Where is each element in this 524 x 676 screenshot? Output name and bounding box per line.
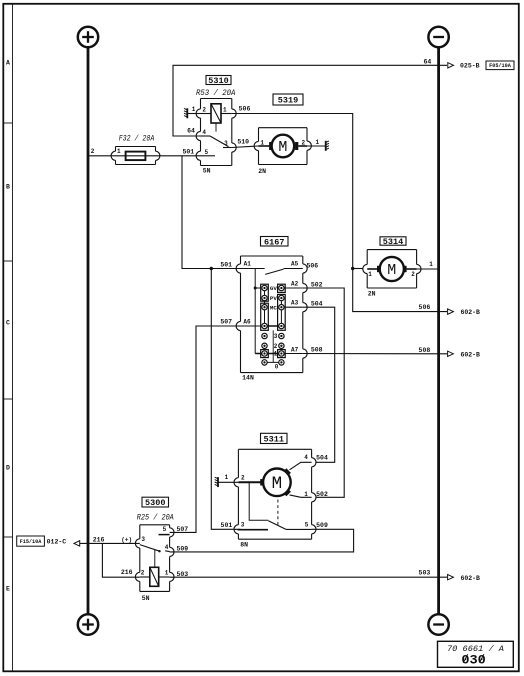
label 8N: [240, 542, 248, 549]
contact R-PV: [279, 295, 284, 300]
svg-text:D: D: [6, 464, 10, 471]
motor 5314: [367, 257, 416, 281]
svg-text:MC: MC: [270, 304, 277, 311]
wire 506 junction to 5314: [353, 268, 363, 270]
svg-text:510: 510: [237, 139, 249, 146]
label 2N under 5314: [368, 291, 376, 298]
contact box right PV-R4: [278, 294, 286, 330]
svg-text:504: 504: [316, 455, 328, 462]
wire to pin 1: [290, 495, 312, 497]
svg-text:F05/10A: F05/10A: [489, 63, 512, 69]
label pos1: [274, 351, 278, 358]
label PV: [270, 295, 277, 302]
svg-text:5: 5: [305, 522, 309, 529]
A6 stub: [241, 325, 261, 327]
wire 503: [170, 576, 447, 578]
battery - symbol bottom: [428, 614, 448, 634]
junction 501 at A1 row: [210, 267, 213, 270]
svg-text:602-B: 602-B: [460, 309, 480, 316]
svg-text:2: 2: [411, 271, 415, 278]
contact box right row1: [278, 350, 286, 358]
label 502 at A2: [311, 281, 323, 288]
svg-text:1: 1: [429, 261, 433, 268]
label 504 at A3: [311, 301, 323, 308]
right column link: [280, 298, 282, 326]
pin label A1: [244, 261, 252, 268]
margin letter D: [6, 464, 10, 471]
row R4 link: [265, 325, 282, 327]
svg-text:3: 3: [241, 522, 245, 529]
pin label 2 (5319): [301, 139, 305, 146]
svg-text:5310: 5310: [208, 76, 228, 86]
pin label 2 (5300): [141, 569, 145, 576]
svg-text:2: 2: [141, 569, 145, 576]
label pos0: [275, 363, 279, 370]
svg-text:3: 3: [274, 333, 278, 340]
wire 510: [232, 139, 259, 148]
svg-text:1: 1: [315, 139, 319, 146]
contact R-3: [279, 333, 284, 338]
label 2N under 5319: [258, 168, 266, 175]
svg-text:5311: 5311: [264, 434, 284, 444]
junction inside 6167: [254, 287, 257, 290]
wire 501 down to 5311 pin3: [211, 269, 240, 530]
svg-text:5: 5: [204, 149, 208, 156]
svg-text:506: 506: [306, 263, 318, 270]
svg-text:A6: A6: [243, 318, 251, 325]
svg-text:M: M: [278, 139, 287, 156]
label 64 near relay: [187, 127, 195, 134]
title block: [438, 641, 514, 667]
+ supply bus: [87, 47, 90, 615]
svg-text:5N: 5N: [203, 168, 211, 175]
exit arrow 602-B (508): [448, 351, 480, 358]
label 504 at 5311: [316, 455, 328, 462]
label MC: [270, 304, 277, 311]
contact L-PV: [262, 295, 267, 300]
svg-text:F32 / 20A: F32 / 20A: [119, 136, 155, 144]
pin 3 stub (5310): [223, 140, 232, 147]
svg-text:3: 3: [141, 536, 145, 543]
svg-text:012-C: 012-C: [47, 538, 67, 545]
margin tick 2: [3, 260, 12, 262]
margin tick 3: [3, 398, 12, 400]
svg-text:3: 3: [224, 140, 228, 147]
5300 pin4 stub: [165, 544, 170, 552]
margin letter A: [6, 59, 10, 66]
A5 stub: [284, 268, 303, 270]
contact R-2: [279, 343, 284, 348]
label 5N under 5310: [203, 168, 211, 175]
selector line: [272, 330, 274, 362]
wire 509: [170, 529, 354, 552]
wire 508: [303, 353, 447, 355]
fuse F32: [111, 147, 160, 165]
destination box F05/10A: [486, 61, 514, 70]
label 507 near 5300: [176, 526, 188, 533]
label 506 near relay: [239, 105, 251, 112]
svg-text:1: 1: [165, 569, 169, 576]
label GV: [270, 285, 277, 292]
svg-text:1: 1: [117, 148, 121, 155]
wire 64: [173, 65, 447, 136]
5300 blade link: [154, 550, 156, 568]
label 507 near A6: [220, 319, 232, 326]
svg-text:502: 502: [311, 281, 323, 288]
svg-text:502: 502: [316, 491, 328, 498]
label 509 at 5311: [316, 522, 328, 529]
svg-text:216: 216: [93, 536, 105, 543]
svg-text:504: 504: [311, 301, 323, 308]
svg-text:1: 1: [223, 107, 227, 114]
svg-text:0: 0: [275, 363, 279, 370]
ground at 5319: [326, 141, 329, 151]
motor 5319: [259, 135, 308, 158]
row1 to A7 wire: [285, 353, 303, 355]
svg-text:5300: 5300: [145, 498, 165, 508]
wire 216 branch to pin2: [102, 543, 139, 577]
ground at 5311: [215, 474, 239, 487]
wire 501 vertical to A1: [182, 156, 241, 269]
margin tick 1: [3, 122, 12, 124]
svg-text:503: 503: [419, 570, 431, 577]
6167 internal feed line: [254, 269, 256, 354]
wire 216 to pin3: [80, 542, 140, 544]
svg-text:64: 64: [423, 58, 431, 65]
contact R-1: [279, 351, 284, 356]
margin letter E: [6, 585, 10, 592]
5311 park blade: [268, 521, 286, 530]
contact L-3: [262, 333, 267, 338]
5311 blade to pin5: [286, 528, 312, 530]
svg-text:2: 2: [91, 148, 95, 155]
coil link 5310: [215, 123, 217, 132]
MC to A3 wire: [285, 306, 303, 308]
margin column line: [12, 4, 14, 672]
svg-text:4: 4: [202, 129, 206, 136]
contact R-GV: [279, 285, 284, 290]
motor 5319 body: [254, 128, 311, 165]
svg-text:503: 503: [176, 571, 188, 578]
exit arrow 602-B (506): [448, 309, 480, 316]
svg-text:2N: 2N: [368, 291, 376, 298]
svg-text:2: 2: [301, 139, 305, 146]
contact box left row1: [261, 350, 269, 358]
wire 2 from + bus to fuse: [88, 148, 116, 156]
svg-text:5: 5: [163, 526, 167, 533]
svg-text:A7: A7: [291, 346, 299, 353]
contact L-MC: [262, 305, 267, 310]
wire 5314 pin2 to - bus: [417, 261, 439, 269]
svg-text:E: E: [6, 585, 10, 592]
row 0 link: [265, 361, 282, 363]
svg-text:508: 508: [419, 347, 431, 354]
svg-text:A: A: [6, 59, 10, 66]
destination box F15/10A: [17, 536, 45, 546]
battery - symbol top: [428, 27, 448, 47]
wire 5319 pin2 to ground: [307, 139, 326, 146]
5300 pin5 bar: [159, 526, 170, 535]
svg-text:508: 508: [311, 347, 323, 354]
contact R-MC: [279, 305, 284, 310]
A1-A5 switch blade: [265, 269, 283, 274]
label R53/20A: [196, 90, 236, 98]
wire 504: [303, 307, 335, 462]
pin label 2 (5311): [241, 474, 245, 481]
svg-text:602-B: 602-B: [460, 351, 480, 358]
relay 5300 body: [135, 525, 174, 592]
svg-text:025-B: 025-B: [460, 62, 480, 69]
contact R-R4: [279, 323, 284, 328]
svg-text:6167: 6167: [264, 237, 284, 247]
label 012-C: [47, 538, 67, 545]
pin label 1 (5314): [368, 271, 372, 278]
label 216 top: [93, 536, 105, 543]
contact L-2: [262, 343, 267, 348]
svg-text:5N: 5N: [142, 595, 150, 602]
label 508 near exit: [419, 347, 431, 354]
svg-text:509: 509: [316, 522, 328, 529]
wire 501 fuse to relay pin5: [116, 155, 201, 157]
svg-text:1: 1: [304, 491, 308, 498]
label 5N under 5300: [142, 595, 150, 602]
pin label 1 (5311): [304, 491, 308, 498]
svg-text:507: 507: [220, 319, 232, 326]
pin label 1 (5319): [260, 139, 264, 146]
svg-text:5319: 5319: [278, 96, 298, 106]
pin 5 stub (5310): [201, 149, 216, 156]
svg-text:M: M: [272, 474, 283, 494]
label 64 near arrow: [423, 58, 431, 65]
label 506 at A5: [306, 263, 318, 270]
svg-text:A5: A5: [291, 261, 299, 268]
svg-text:F15/10A: F15/10A: [20, 539, 43, 545]
label 508 at A7: [311, 347, 323, 354]
contact box right GV: [278, 284, 286, 292]
svg-text:506: 506: [239, 105, 251, 112]
pin label 2 (5314): [411, 271, 415, 278]
margin letter C: [6, 319, 10, 326]
pin label 4 (5310): [202, 129, 206, 136]
svg-text:5314: 5314: [383, 237, 403, 247]
5300 switch blade: [140, 545, 161, 553]
label F32/20A: [119, 136, 155, 144]
label 501 near relay pin5: [182, 149, 194, 156]
pin label A7: [291, 346, 299, 353]
ground at 5310 pin 1: [184, 106, 201, 118]
pin label 4 (5311): [304, 454, 308, 461]
svg-text:501: 501: [220, 261, 232, 268]
margin letter B: [6, 183, 10, 190]
5311 pin3 contact bar: [238, 529, 269, 531]
pin label A6: [243, 318, 251, 325]
svg-text:1: 1: [368, 271, 372, 278]
label 503 near 5300: [176, 571, 188, 578]
contact box left MC-R4: [261, 303, 269, 330]
battery + symbol top: [78, 27, 98, 47]
svg-text:1: 1: [192, 106, 196, 113]
svg-text:64: 64: [187, 127, 195, 134]
svg-text:B: B: [6, 183, 10, 190]
switch blade 5310: [201, 136, 229, 147]
label box 5310: [206, 76, 231, 87]
mechanical dashed link: [277, 500, 279, 528]
pin label 3 (5300): [141, 536, 145, 543]
svg-text:A1: A1: [244, 261, 252, 268]
coil of 5300: [140, 567, 170, 586]
svg-text:(+): (+): [121, 536, 132, 543]
label R25/20A: [137, 514, 174, 522]
pin label A5: [291, 261, 299, 268]
pin label 5 (5311): [305, 522, 309, 529]
contact L-1: [262, 351, 267, 356]
label 14N: [242, 375, 254, 382]
svg-text:M: M: [387, 262, 396, 279]
wire to pin 4: [290, 462, 312, 470]
svg-text:8N: 8N: [240, 542, 248, 549]
svg-text:507: 507: [176, 526, 188, 533]
left column link: [264, 288, 266, 326]
pin label 3 (5311): [241, 522, 245, 529]
motor 5311: [238, 468, 290, 496]
svg-text:14N: 14N: [242, 375, 254, 382]
contact box left GV-PV: [261, 284, 269, 301]
label box 5314: [380, 237, 406, 247]
svg-text:501: 501: [221, 522, 233, 529]
pin label 2 (5310): [202, 107, 206, 114]
junction 506: [351, 267, 354, 270]
label 509 at 5300: [176, 545, 188, 552]
GV to A2 wire: [285, 287, 303, 289]
svg-text:506: 506: [419, 304, 431, 311]
svg-text:509: 509: [176, 545, 188, 552]
wire 506 branch to exit: [353, 269, 447, 312]
svg-text:1: 1: [225, 474, 229, 481]
link to GV contact: [255, 287, 261, 289]
svg-text:GV: GV: [270, 285, 277, 292]
relay 5310 body: [196, 99, 236, 166]
label 216 lower: [121, 569, 133, 576]
5311 park link L: [249, 482, 268, 520]
svg-text:501: 501: [182, 149, 194, 156]
label box 5319: [273, 94, 303, 106]
svg-text:2: 2: [202, 107, 206, 114]
exit arrow 012-C: [74, 541, 80, 546]
contact R-0: [279, 360, 284, 365]
exit arrow 025-B: [448, 62, 480, 69]
svg-text:PV: PV: [270, 295, 277, 302]
label box 5311: [261, 433, 288, 444]
pin label 1 (5300): [165, 569, 169, 576]
exit arrow 602-B (503): [448, 575, 480, 582]
pin label 1 right (5310): [223, 107, 227, 114]
motor 5311 body: [234, 449, 316, 539]
svg-text:216: 216: [121, 569, 133, 576]
A1 stub: [241, 268, 265, 270]
row 1 link: [255, 353, 281, 355]
svg-text:602-B: 602-B: [460, 575, 480, 582]
pin label A2: [291, 281, 299, 288]
svg-text:4: 4: [165, 544, 169, 551]
label 502 at 5311: [316, 491, 328, 498]
svg-text:R25 / 20A: R25 / 20A: [137, 514, 174, 522]
svg-text:R53 / 20A: R53 / 20A: [196, 90, 236, 98]
svg-text:2N: 2N: [258, 168, 266, 175]
label 501 near 5311: [221, 522, 233, 529]
pin label A3: [291, 300, 299, 307]
svg-text:A3: A3: [291, 300, 299, 307]
svg-text:C: C: [6, 319, 10, 326]
label box 5300: [142, 497, 169, 508]
label pos2: [274, 343, 278, 350]
- ground bus: [437, 47, 440, 615]
svg-text:1: 1: [274, 351, 278, 358]
switch 6167 body: [236, 256, 307, 373]
svg-text:2: 2: [274, 343, 278, 350]
label (+): [121, 536, 132, 543]
contact L-R4: [262, 323, 267, 328]
svg-text:A2: A2: [291, 281, 299, 288]
contact L-GV: [262, 285, 267, 290]
contact L-0: [262, 360, 267, 365]
label 501 near A1: [220, 261, 232, 268]
label box 6167: [261, 237, 289, 248]
svg-text:4: 4: [304, 454, 308, 461]
label pos3: [274, 333, 278, 340]
coil of 5310: [201, 104, 232, 123]
wire 506 relay to A5/5314: [232, 114, 353, 269]
battery + symbol bottom: [78, 614, 98, 634]
margin tick 4: [3, 536, 12, 538]
wire 502: [303, 288, 344, 497]
wire 507 5300 pin5 to A6: [170, 326, 241, 532]
label 506 near exit: [419, 304, 431, 311]
motor 5314 body: [363, 250, 421, 288]
label 503 near exit: [419, 570, 431, 577]
svg-text:2: 2: [241, 474, 245, 481]
